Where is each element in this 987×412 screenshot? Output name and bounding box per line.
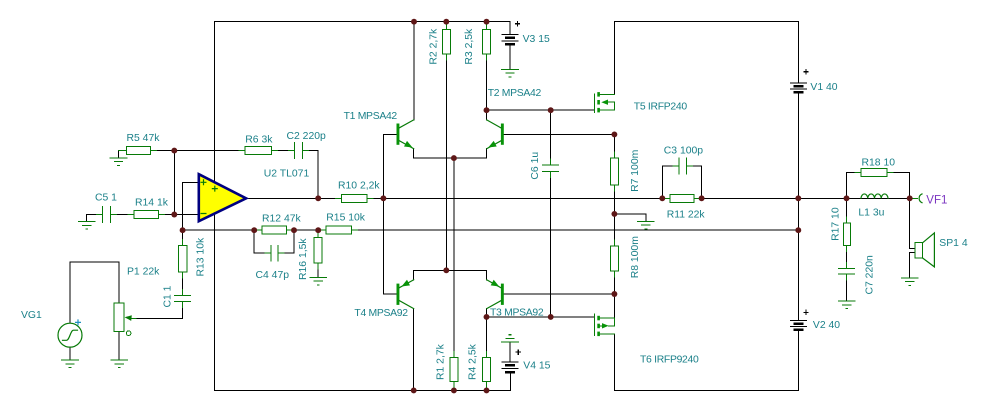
battery V1 — [790, 83, 807, 92]
transistor T1 — [397, 120, 414, 149]
node noninv divider — [180, 227, 186, 233]
capacitor C3 — [673, 158, 692, 174]
capacitor C6 — [543, 159, 559, 178]
wire inverting input row — [159, 214, 199, 216]
mosfet T6 — [594, 314, 614, 336]
wire R6 C2 link — [271, 150, 294, 152]
resistor R17 — [843, 217, 850, 251]
svg-text:T6 IRFP9240: T6 IRFP9240 — [640, 354, 699, 365]
wire VF1 stub — [910, 197, 918, 199]
resistor R8 — [610, 240, 618, 277]
ground P1 — [111, 360, 128, 368]
resistor R12 — [256, 226, 293, 234]
capacitor C1 — [175, 289, 191, 307]
resistor R11 — [664, 194, 700, 202]
plus sign V2 — [803, 310, 808, 315]
wire T1 collector column — [413, 22, 415, 120]
wire T4 T3 emitter rail — [414, 270, 487, 280]
wire T1 T2 emitter rail — [414, 149, 487, 158]
wire C5 R14 link — [111, 214, 134, 216]
wire V1-V2 mid column — [797, 198, 799, 320]
wire R2 bottom column — [445, 54, 447, 270]
node fb rail right — [795, 227, 801, 233]
resistor R1 — [450, 352, 458, 388]
wire left block bottom rail — [215, 372, 511, 390]
wire V1 bottom lead — [797, 92, 799, 198]
node R3 top — [484, 19, 490, 25]
wire R16 ground lead — [317, 263, 319, 277]
transistor T2 — [487, 120, 504, 149]
wire feedback rail R12 R15 — [183, 229, 799, 231]
generator VG1 — [58, 319, 82, 347]
ground R16 — [310, 277, 327, 285]
svg-text:R5 47k: R5 47k — [127, 133, 161, 144]
svg-text:C7 220n: C7 220n — [865, 255, 876, 295]
svg-text:T2 MPSA42: T2 MPSA42 — [488, 88, 542, 99]
ground VG1 — [62, 360, 79, 368]
wire V4 top lead — [509, 342, 511, 362]
node upper emitter rail — [451, 155, 457, 161]
wire noninv input — [183, 183, 199, 231]
node T6 source — [611, 291, 617, 297]
plus sign V4 — [516, 349, 521, 354]
svg-text:V3 15: V3 15 — [523, 34, 550, 45]
wire R8 bottom to T6 source — [613, 271, 615, 318]
node R12 right — [291, 227, 297, 233]
wire C1 to P1 wiper — [129, 302, 183, 319]
wire left block left edge — [214, 22, 216, 391]
svg-text:R16 1,5k: R16 1,5k — [298, 238, 309, 280]
resistor R10 — [336, 194, 373, 202]
wire R16 top lead — [317, 230, 319, 238]
ground V3 — [502, 69, 519, 77]
svg-text:C3 100p: C3 100p — [664, 145, 704, 156]
wire T2 collector stub — [486, 110, 488, 120]
svg-text:U2 TL071: U2 TL071 — [264, 168, 310, 179]
wire P1 bottom — [118, 332, 120, 360]
wire R2 top lead — [445, 22, 447, 30]
wire R5 R6 feedback row — [151, 150, 246, 152]
wire T6 gate net — [487, 316, 595, 318]
svg-text:C4 47p: C4 47p — [256, 270, 290, 281]
wire C2 to output node — [302, 151, 318, 199]
wire R4 bottom lead — [486, 382, 488, 391]
node R17 top — [844, 195, 850, 201]
wire R13 C1 link — [182, 272, 184, 295]
svg-text:R10 2,2k: R10 2,2k — [338, 181, 380, 192]
svg-text:R15 10k: R15 10k — [326, 213, 366, 224]
wire C5 to ground — [87, 215, 103, 222]
svg-text:R13 10k: R13 10k — [196, 237, 207, 277]
wire R3 top lead — [486, 22, 488, 30]
wire R13 top link — [182, 230, 184, 245]
node V1 V2 mid — [795, 195, 801, 201]
wire R3 bottom to T2 collector node — [486, 54, 488, 110]
wire R17 top lead — [846, 198, 848, 223]
node T4 collector bottom — [411, 387, 417, 393]
resistor R14 — [128, 211, 165, 219]
wire C4 loop — [254, 230, 294, 253]
svg-text:SP1 4: SP1 4 — [939, 238, 968, 249]
node R10 right — [380, 195, 386, 201]
plus sign V3 — [515, 21, 520, 26]
wire C6 top stem — [550, 110, 552, 165]
svg-text:V4 15: V4 15 — [523, 361, 550, 372]
ground V4 inverted — [502, 335, 519, 343]
svg-text:R3 2,5k: R3 2,5k — [464, 28, 475, 65]
node mid ground — [611, 211, 617, 217]
node R1 bottom — [451, 387, 457, 393]
node opamp output — [315, 195, 321, 201]
svg-text:L1 3u: L1 3u — [858, 207, 884, 218]
wire T5 source to R7 — [613, 134, 615, 158]
node C6 top — [548, 107, 554, 113]
speaker SP1 — [915, 233, 934, 267]
svg-text:V1 40: V1 40 — [810, 82, 837, 93]
wire left block top rail — [215, 22, 511, 35]
node T5 source — [611, 131, 617, 137]
svg-text:V2 40: V2 40 — [813, 320, 840, 331]
svg-text:T5 IRFP240: T5 IRFP240 — [634, 102, 688, 113]
svg-text:C2 220p: C2 220p — [287, 131, 327, 142]
resistor R3 — [483, 24, 491, 61]
svg-text:R6 3k: R6 3k — [245, 134, 273, 145]
svg-text:VF1: VF1 — [926, 195, 947, 207]
node speaker top — [907, 195, 913, 201]
resistor R7 — [610, 152, 618, 191]
ground R5 — [110, 158, 127, 166]
plus sign V1 — [803, 69, 808, 74]
wire R18 loop — [847, 173, 910, 199]
wire V3 bottom lead — [509, 44, 511, 69]
ground mid — [638, 221, 655, 229]
svg-text:C6 1u: C6 1u — [530, 152, 541, 180]
wire right block bottom rail — [614, 330, 798, 391]
wire R5 node to inv input — [173, 151, 175, 215]
wire P1 top to VG1 — [70, 262, 119, 323]
svg-text:T3 MPSA92: T3 MPSA92 — [490, 307, 544, 318]
wire T4 collector column — [413, 309, 415, 391]
node T1 collector rail — [411, 19, 417, 25]
resistor R4 — [483, 352, 491, 388]
wire output rail — [246, 197, 846, 199]
capacitor C4 — [265, 245, 284, 261]
node T2 collector — [484, 107, 490, 113]
wire T2 base to T5 source node — [504, 133, 615, 135]
wire R17 C7 link — [846, 245, 848, 268]
capacitor C2 — [289, 143, 309, 159]
svg-text:R1 2,7k: R1 2,7k — [435, 343, 446, 380]
wire R1 column from emitter rail — [453, 158, 455, 357]
resistor R6 — [239, 147, 277, 155]
ground C5 — [78, 222, 95, 230]
svg-text:VG1: VG1 — [21, 310, 42, 321]
ground SP1 — [901, 278, 918, 286]
svg-text:C1 1: C1 1 — [162, 285, 173, 307]
node R4 bottom — [484, 387, 490, 393]
wire T3 collector node column — [486, 309, 488, 317]
ground C7 — [838, 301, 855, 309]
svg-text:R11 22k: R11 22k — [667, 210, 706, 221]
probe VF1 — [919, 194, 922, 203]
node R12 left — [251, 227, 257, 233]
wire C6 bottom stem — [550, 171, 552, 317]
capacitor C5 — [96, 206, 116, 222]
wire speaker bottom lead — [910, 252, 916, 278]
svg-text:R7 100m: R7 100m — [630, 150, 641, 192]
wire R7 bottom to R8 top — [613, 185, 615, 246]
node R11 left — [659, 195, 665, 201]
svg-text:P1 22k: P1 22k — [127, 266, 160, 277]
svg-text:T4 MPSA92: T4 MPSA92 — [354, 308, 408, 319]
wire C7 ground lead — [846, 274, 848, 301]
transistor T4 — [397, 280, 414, 309]
svg-text:T1 MPSA42: T1 MPSA42 — [344, 111, 398, 122]
resistor R5 — [119, 147, 157, 155]
wire T3 base to T6 source node — [504, 293, 615, 295]
svg-text:R2 2,7k: R2 2,7k — [429, 28, 440, 65]
wire R5 to ground — [119, 151, 127, 158]
wire mid ground stub — [614, 214, 646, 221]
resistor R18 — [855, 169, 893, 177]
svg-text:R18 10: R18 10 — [862, 158, 896, 169]
wire T5 drain column — [613, 22, 615, 95]
capacitor C7 — [839, 263, 855, 281]
op-amp U2 — [199, 174, 246, 221]
svg-text:C5 1: C5 1 — [95, 193, 117, 204]
battery V4 — [502, 362, 519, 372]
node lower emitter rail — [443, 267, 449, 273]
wire speaker top lead — [910, 198, 916, 248]
battery V2 — [790, 321, 807, 330]
svg-text:R14 1k: R14 1k — [135, 198, 169, 209]
potentiometer P1 — [114, 303, 136, 336]
wire VG1 bottom — [69, 347, 71, 360]
svg-text:R12 47k: R12 47k — [262, 214, 302, 225]
svg-text:R8 100m: R8 100m — [630, 236, 641, 278]
wire T1 T4 base column — [383, 134, 396, 294]
svg-text:R4 2,5k: R4 2,5k — [468, 343, 479, 380]
resistor R15 — [320, 226, 357, 234]
transistor T3 — [487, 280, 504, 309]
wire T6 drain column — [613, 334, 615, 390]
wire C3 loop — [662, 166, 701, 198]
node R5 feedback — [171, 148, 177, 154]
battery V3 — [502, 35, 519, 45]
node inv input — [171, 212, 177, 218]
node C6 bottom — [548, 314, 554, 320]
node T3 collector — [484, 314, 490, 320]
resistor R16 — [314, 232, 322, 270]
inductor L1 — [847, 197, 910, 199]
wire R1 bottom lead — [453, 382, 455, 391]
node R2 top — [443, 19, 449, 25]
resistor R13 — [178, 240, 186, 279]
wire R4 top lead column — [486, 317, 488, 358]
node R16 top — [315, 227, 321, 233]
resistor R2 — [442, 24, 450, 61]
wire T5 gate net — [487, 109, 595, 111]
node R11 right — [699, 195, 705, 201]
mosfet T5 — [594, 92, 614, 112]
wire right block top rail — [614, 22, 798, 84]
svg-text:R17 10: R17 10 — [831, 207, 842, 241]
